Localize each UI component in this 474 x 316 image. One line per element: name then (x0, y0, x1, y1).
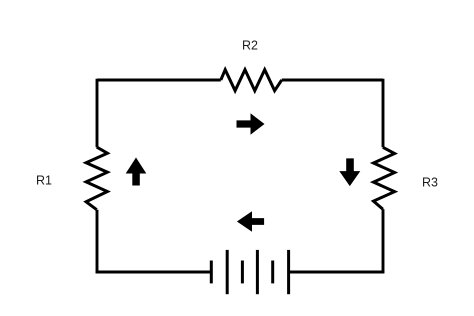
current arrow left (bottom) (237, 211, 264, 231)
battery V1 long plate 3 (287, 250, 290, 294)
wire right upper segment (382, 79, 385, 148)
resistor R3 (374, 147, 395, 209)
current arrow up (left) (126, 158, 147, 186)
wire top-right segment (282, 79, 383, 82)
battery V1 long plate 1 (226, 250, 229, 294)
wire bottom-right segment (289, 271, 385, 274)
resistor R2 (221, 70, 282, 91)
svg-text:R2: R2 (242, 39, 258, 53)
current arrow down (right) (339, 158, 360, 186)
wire left upper segment (96, 79, 99, 147)
wire top-left segment (97, 79, 221, 82)
resistor R1 (86, 147, 107, 210)
battery V1 short plate 1 (210, 261, 213, 284)
battery V1 short plate 3 (271, 261, 274, 284)
battery V1 short plate 2 (241, 261, 244, 284)
svg-text:R3: R3 (422, 176, 438, 190)
wire right lower segment (382, 209, 385, 273)
wire bottom-left segment (96, 271, 212, 274)
wire left lower segment (96, 210, 99, 274)
svg-text:R1: R1 (36, 174, 52, 188)
battery V1 long plate 2 (256, 250, 259, 294)
current arrow right (top) (237, 113, 265, 134)
